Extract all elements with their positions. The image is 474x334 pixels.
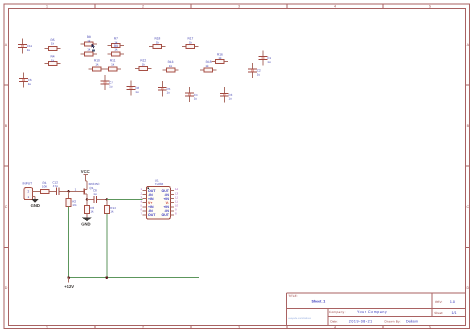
capacitor C8a [127, 80, 140, 95]
wire gate [63, 190, 84, 192]
svg-text:1u: 1u [135, 90, 139, 94]
svg-text:Sheet:: Sheet: [434, 311, 443, 315]
resistor R18 [149, 37, 165, 49]
svg-text:D: D [466, 286, 469, 290]
svg-text:1k: 1k [51, 42, 55, 46]
ground connector GND [31, 199, 40, 208]
frame zone letters left [5, 43, 8, 290]
wire to opamp [107, 198, 143, 200]
svg-text:4: 4 [334, 5, 336, 9]
capacitor C3 [220, 87, 233, 102]
svg-text:Company:: Company: [329, 310, 346, 314]
frame zone numbers top [46, 5, 431, 9]
connector P1 INPUT [23, 182, 38, 200]
capacitor C2 [248, 63, 261, 78]
frame bottom ticks [95, 326, 383, 330]
svg-text:C: C [466, 205, 469, 209]
capacitor C6 [19, 72, 32, 87]
svg-text:1u: 1u [27, 48, 31, 52]
svg-text:easyeda.com/Deilson: easyeda.com/Deilson [288, 317, 312, 320]
svg-text:1k: 1k [110, 210, 114, 214]
svg-text:1k: 1k [189, 40, 193, 44]
svg-text:OUT: OUT [148, 213, 156, 217]
svg-text:Sheet_1: Sheet_1 [312, 299, 326, 303]
svg-text:1/1: 1/1 [452, 311, 457, 315]
resistor R4 [44, 55, 60, 66]
capacitor C5 [158, 81, 171, 96]
capacitor C7 [101, 75, 114, 90]
svg-text:1: 1 [46, 5, 48, 9]
svg-text:VCC: VCC [81, 169, 90, 174]
capacitor C11 [18, 38, 32, 53]
svg-text:REV:: REV: [435, 300, 442, 304]
svg-text:Deilson: Deilson [406, 320, 418, 324]
ground flag GND under R3 [81, 218, 92, 227]
svg-text:1u: 1u [109, 85, 113, 89]
svg-text:1k: 1k [114, 48, 118, 52]
svg-text:2019-08-21: 2019-08-21 [349, 320, 373, 324]
svg-text:1k: 1k [142, 62, 146, 66]
svg-text:1u: 1u [194, 97, 198, 101]
junction node source [86, 198, 88, 200]
capacitor C4 [185, 87, 198, 102]
svg-text:4: 4 [334, 326, 336, 330]
resistor R13 [162, 60, 178, 72]
resistor R11 [105, 59, 121, 71]
svg-text:1k: 1k [156, 40, 160, 44]
capacitor C12 [52, 181, 62, 196]
title block [286, 293, 465, 326]
capacitor C8 series [87, 188, 107, 203]
resistor R7 [108, 37, 124, 48]
resistor R8 [81, 35, 97, 46]
transistor Q1 BF245C [84, 182, 100, 199]
svg-text:1.0: 1.0 [450, 300, 455, 304]
svg-text:1u: 1u [229, 97, 233, 101]
svg-text:INPUT: INPUT [23, 182, 33, 186]
svg-text:1k: 1k [205, 64, 209, 68]
svg-text:C: C [5, 205, 8, 209]
resistor R14 [104, 199, 116, 213]
resistor R12 [135, 59, 151, 71]
resistor R16 [212, 52, 228, 63]
junction node out [106, 198, 108, 200]
resistor R5 [44, 38, 60, 51]
resistor R6 [81, 47, 97, 56]
frame top ticks [95, 4, 383, 9]
resistor R3 [84, 199, 94, 217]
svg-text:10K: 10K [42, 185, 47, 189]
wire R14 to bus [106, 214, 108, 278]
resistor R9 [108, 44, 124, 56]
svg-text:1u: 1u [28, 82, 32, 86]
svg-text:1k: 1k [218, 56, 222, 60]
op-amp U1 TL084 [140, 178, 178, 219]
junction node gate [68, 190, 70, 192]
svg-text:1u: 1u [267, 60, 271, 64]
resistor R1 [36, 181, 52, 193]
resistor R10 [89, 59, 105, 71]
svg-text:47u: 47u [53, 184, 58, 188]
svg-text:+12V: +12V [64, 284, 74, 289]
mouse cursor [92, 44, 96, 52]
svg-text:1u: 1u [167, 91, 171, 95]
frame zone letters right [466, 43, 469, 290]
svg-text:Your Company: Your Company [357, 310, 387, 314]
svg-text:2: 2 [142, 5, 144, 9]
svg-text:1k: 1k [87, 39, 91, 43]
power flag VCC [81, 169, 90, 189]
frame left ticks [4, 85, 9, 248]
resistor R17 [182, 37, 198, 49]
svg-text:Drawn By:: Drawn By: [385, 320, 402, 324]
wire R2 to bus [68, 206, 70, 277]
resistor R15 [200, 60, 216, 72]
frame zone numbers bottom [46, 326, 431, 330]
svg-text:Date:: Date: [330, 320, 338, 324]
svg-text:3: 3 [238, 326, 240, 330]
svg-text:D: D [5, 286, 8, 290]
svg-text:1m: 1m [72, 203, 77, 207]
svg-text:1: 1 [46, 326, 48, 330]
svg-text:1u: 1u [257, 73, 261, 77]
capacitor C1 [259, 50, 272, 65]
svg-text:1k: 1k [95, 62, 99, 66]
svg-text:1k: 1k [90, 210, 94, 214]
svg-text:1k: 1k [87, 47, 91, 51]
junction bus mid [106, 276, 109, 279]
svg-text:1k: 1k [169, 64, 173, 68]
svg-text:OUT: OUT [162, 213, 170, 217]
net flag +12V [64, 278, 74, 289]
svg-text:GND: GND [31, 203, 40, 208]
svg-text:1u: 1u [93, 192, 97, 196]
svg-text:2: 2 [142, 326, 144, 330]
svg-text:GND: GND [81, 221, 90, 226]
svg-text:3: 3 [238, 5, 240, 9]
svg-text:5: 5 [429, 326, 431, 330]
resistor R2 [66, 191, 77, 207]
wire +12V bus [69, 277, 199, 279]
frame right ticks [466, 85, 471, 248]
svg-text:1k: 1k [51, 58, 55, 62]
svg-text:1k: 1k [111, 62, 115, 66]
svg-text:TL084: TL084 [155, 182, 164, 186]
svg-text:TITLE:: TITLE: [288, 294, 297, 298]
svg-text:5: 5 [429, 5, 431, 9]
junction bus left [67, 276, 70, 279]
